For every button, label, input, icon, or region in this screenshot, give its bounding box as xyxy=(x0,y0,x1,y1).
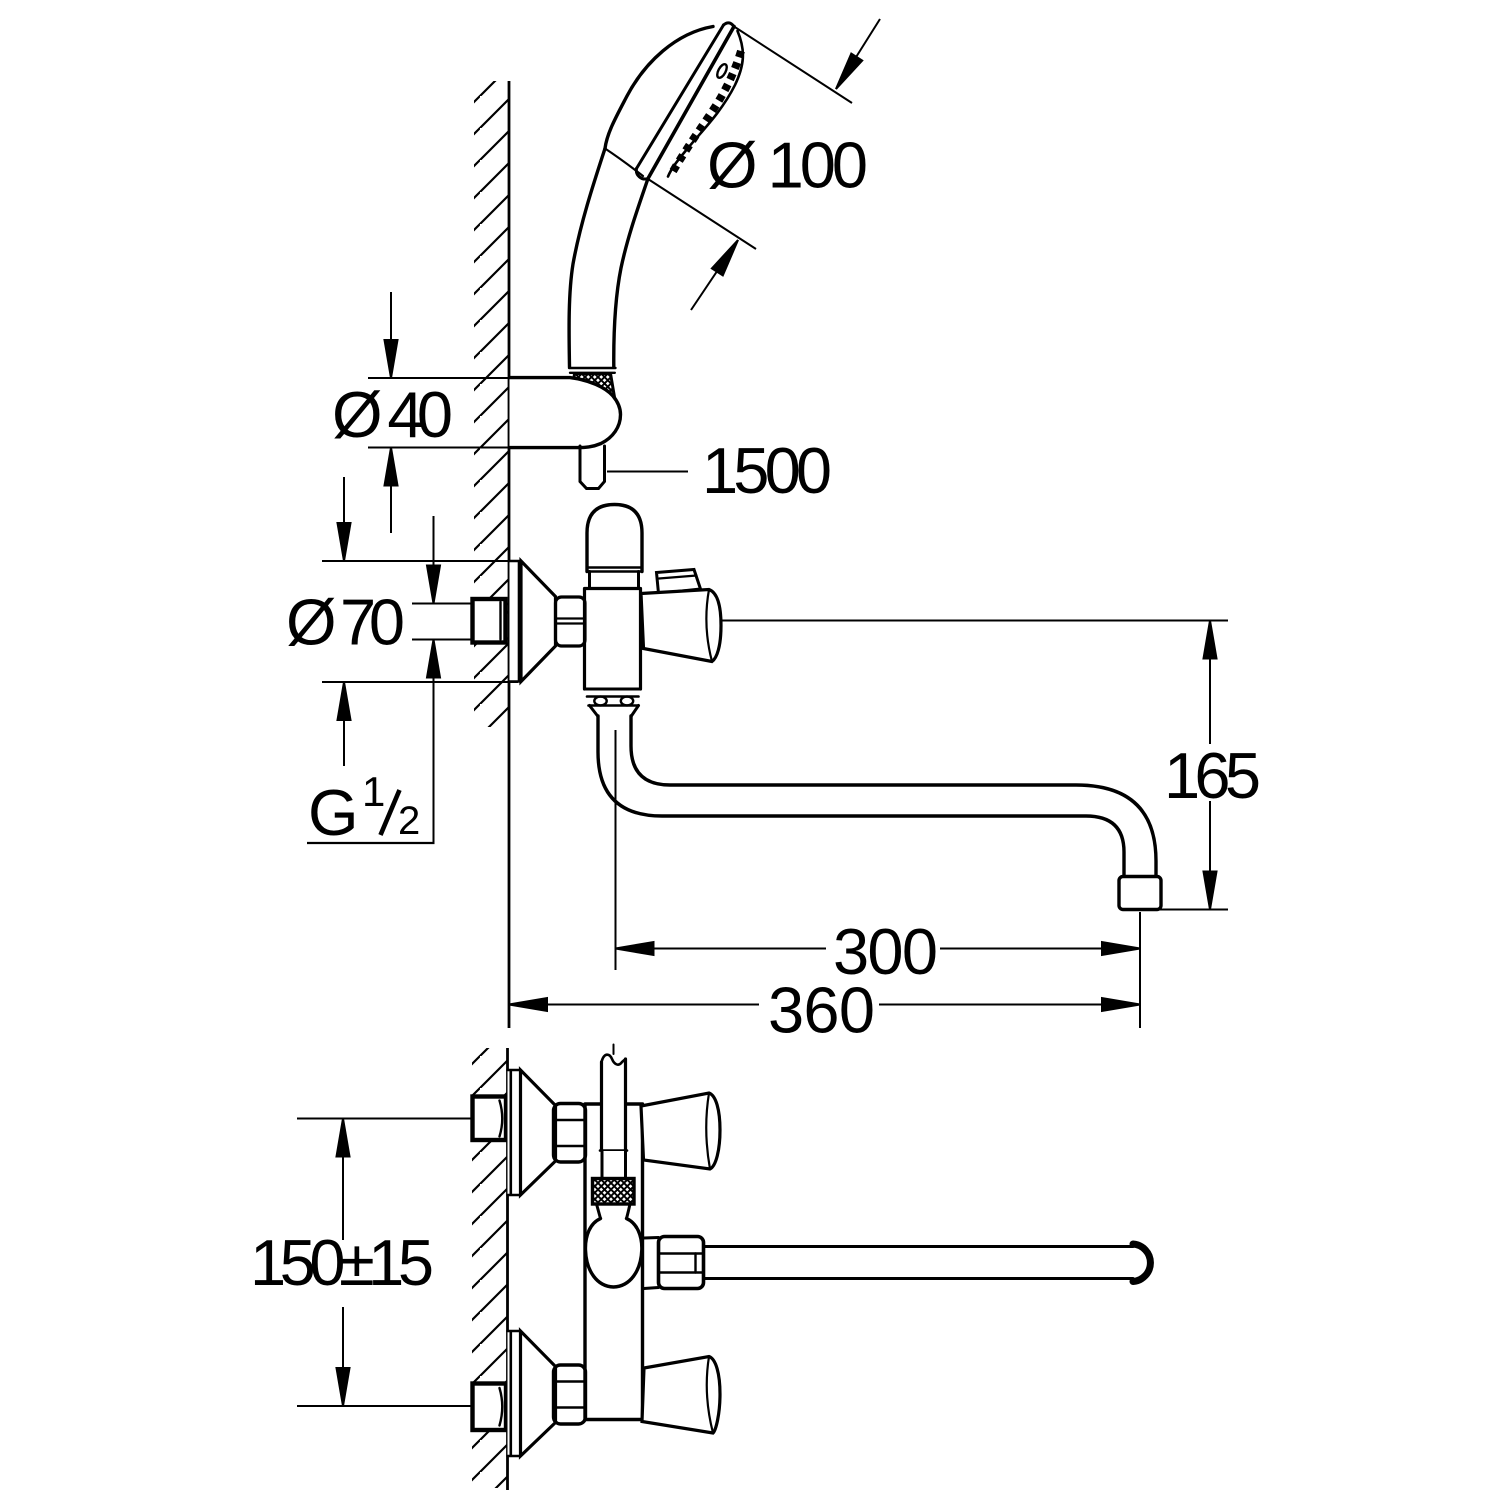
neck collar xyxy=(590,572,639,589)
dimension Ø40 extension lines xyxy=(368,378,567,448)
dimension Ø100 arrowheads xyxy=(712,54,862,276)
hand shower face plate bottom cap xyxy=(636,169,648,179)
spout tube (bottom view) xyxy=(704,1247,1134,1279)
upper inlet square (bottom view) xyxy=(473,1097,507,1141)
svg-text:1500: 1500 xyxy=(702,434,830,507)
svg-text:165: 165 xyxy=(1164,739,1259,812)
ring screws xyxy=(594,697,606,706)
hose nut neck xyxy=(604,1151,625,1179)
shower hose (bottom view) xyxy=(603,1060,624,1150)
hand shower neck seam xyxy=(605,149,643,177)
mixer body bar (bottom view) xyxy=(585,1104,643,1420)
hex connection nut (mid view) xyxy=(556,597,586,646)
svg-text:1: 1 xyxy=(362,768,385,815)
diverter knob xyxy=(657,570,701,594)
dimension Ø100 line tails xyxy=(691,19,880,310)
G 1/2 underline xyxy=(307,842,435,844)
hose knurled cone nut xyxy=(571,374,617,410)
wall holder xyxy=(510,378,621,448)
dimension Ø40 arrows xyxy=(390,292,392,533)
handle (mid view) xyxy=(641,590,721,662)
wall inlet square connector xyxy=(473,599,506,643)
elbow taper into ball xyxy=(597,1204,631,1219)
svg-text:Ø 100: Ø 100 xyxy=(707,129,866,202)
lower handle (bottom view) xyxy=(642,1357,720,1434)
hand shower face plate top cap xyxy=(724,23,735,27)
diverter ball xyxy=(585,1219,641,1288)
spout boss (bottom view) xyxy=(644,1238,659,1289)
hand shower handle right edge xyxy=(614,179,648,368)
inlet connector stubs to wall xyxy=(506,604,510,639)
dimension Ø70 extension lines xyxy=(322,561,518,682)
escutcheon cone (mid view) xyxy=(521,561,556,682)
dimension 150±15 line xyxy=(342,1157,344,1369)
G 1/2 arrows xyxy=(433,516,435,843)
hose nut step xyxy=(600,1149,627,1152)
svg-text:150±15: 150±15 xyxy=(250,1226,432,1299)
dimension 300 extension lines xyxy=(616,730,1141,1028)
dimension 360 line xyxy=(547,1004,1102,1006)
lower hex nut (bottom view) xyxy=(554,1365,586,1424)
spout taper xyxy=(590,706,639,717)
mixer body block xyxy=(585,589,641,690)
handle cap seam xyxy=(706,590,712,662)
hand shower spray face contour xyxy=(668,31,743,177)
dome cap bottom lines xyxy=(587,568,642,572)
body bottom ring xyxy=(585,688,641,691)
spout tube end cap xyxy=(1133,1244,1150,1282)
svg-text:2: 2 xyxy=(398,799,420,843)
hand shower button oval xyxy=(715,63,728,80)
dimension 150±15 extension lines xyxy=(297,1119,472,1407)
lower escutcheon (bottom view) xyxy=(508,1331,521,1456)
S-spout outer edge xyxy=(598,716,1124,877)
svg-text:G: G xyxy=(308,776,359,849)
upper hex nut (bottom view) xyxy=(554,1104,586,1163)
spout outlet nozzle xyxy=(1119,877,1161,910)
knurled hose nut (bottom view) xyxy=(593,1179,635,1205)
wall (lower section) xyxy=(472,1048,508,1490)
svg-text:Ø 40: Ø 40 xyxy=(332,378,451,451)
dimension Ø100 extension lines xyxy=(648,27,852,250)
svg-text:360: 360 xyxy=(768,974,873,1047)
dimension 165 extension lines xyxy=(720,621,1228,910)
inlet connector inner edge xyxy=(499,602,501,640)
dimension Ø70 arrows xyxy=(343,477,345,766)
hand shower face plate front edge xyxy=(648,27,734,179)
dome cap xyxy=(587,505,642,572)
wall (upper section) xyxy=(474,81,509,1028)
escutcheon flange (mid view) xyxy=(510,561,522,682)
hand shower face plate back edge xyxy=(637,25,724,169)
shower hose drop xyxy=(580,446,605,489)
hand shower head outer body xyxy=(605,27,713,149)
G 1/2 leader lines xyxy=(412,604,473,640)
hand shower spray nozzle dots xyxy=(672,51,741,173)
lower inlet square (bottom view) xyxy=(473,1384,507,1431)
handle end double line xyxy=(569,368,616,373)
hose length leader xyxy=(607,471,688,473)
upper handle (bottom view) xyxy=(641,1093,720,1169)
S-spout inner edge xyxy=(631,716,1156,877)
svg-text:Ø 70: Ø 70 xyxy=(286,586,403,659)
dimension 300 line xyxy=(654,948,1103,950)
upper escutcheon (bottom view) xyxy=(508,1070,521,1195)
dimension 165 line xyxy=(1209,659,1211,872)
hand shower handle left edge xyxy=(569,149,605,368)
spout hex adapter (bottom view) xyxy=(659,1237,704,1289)
hose break scallop xyxy=(602,1055,626,1065)
